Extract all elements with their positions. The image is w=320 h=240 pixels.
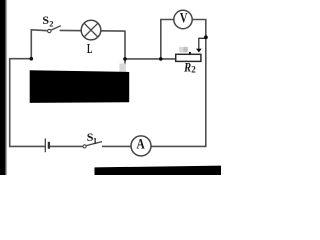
svg-text:A: A	[137, 136, 145, 152]
svg-text:R: R	[183, 60, 191, 74]
svg-text:L: L	[87, 42, 92, 57]
svg-text:1: 1	[93, 135, 97, 145]
svg-text:2: 2	[49, 19, 53, 29]
svg-text:V: V	[180, 11, 188, 27]
svg-text:2: 2	[191, 64, 196, 74]
